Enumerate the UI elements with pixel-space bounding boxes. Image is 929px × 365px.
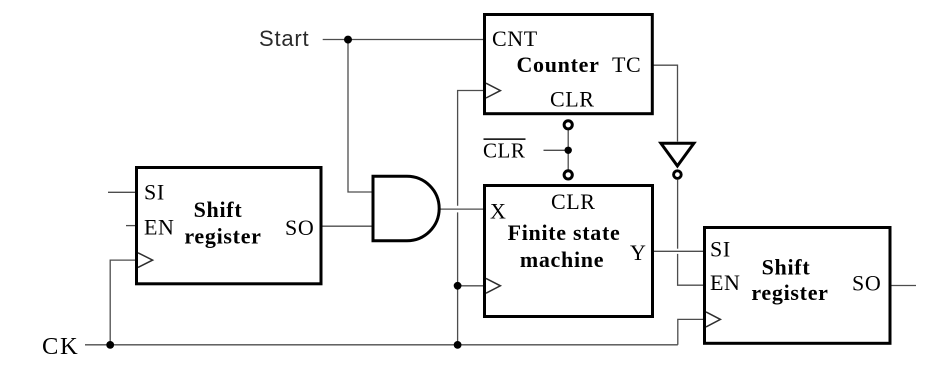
svg-text:EN: EN [144,215,175,240]
svg-text:Shift: Shift [762,255,811,280]
svg-text:register: register [751,280,828,305]
svg-text:register: register [184,224,261,249]
inverter G2 bubble [674,171,682,179]
clock triangle U3 [486,278,500,293]
wire branch to FSM clock [458,285,483,287]
svg-text:CLR: CLR [550,87,595,112]
svg-text:Start: Start [259,26,309,51]
wire SO1 to AND input B [323,225,373,227]
junction dot Start [344,36,352,44]
clock triangle U2 [486,83,500,98]
svg-text:Counter: Counter [516,52,599,77]
wire SI1 input [108,191,135,193]
overline CLRbar [484,138,526,140]
wire CLRbar stub [544,149,569,151]
svg-text:CK: CK [42,333,79,360]
wire CK riser upper segment to counter clock [458,91,483,206]
FSM CLR bubble [564,171,572,179]
svg-text:TC: TC [612,52,641,77]
svg-text:X: X [490,199,507,224]
wire CK main [85,344,678,346]
wire inverter out upper [677,180,679,249]
counter CLR bubble [564,121,572,129]
junction dot FSM clock [454,282,462,290]
svg-text:Shift: Shift [194,197,243,222]
counter U2 box [485,15,653,114]
svg-text:SO: SO [285,215,314,240]
wire SO2 output [891,285,916,287]
FSM U3 box [485,186,653,317]
svg-text:SI: SI [710,237,731,262]
svg-text:machine: machine [520,247,604,272]
wire CK riser to clock SR1 [110,260,135,345]
svg-text:CLR: CLR [483,139,525,163]
wire Start to CNT [323,39,483,41]
svg-text:EN: EN [710,270,741,295]
wire Start drop to AND input A [348,40,372,193]
clock triangle U1 [138,253,153,268]
svg-text:Y: Y [630,240,647,265]
shift register U1 box [137,168,322,284]
clock triangle U4 [706,312,720,327]
wire Y to SI2 [654,250,703,252]
wire CK riser to clock SR2 [678,319,703,344]
svg-text:SI: SI [144,180,165,205]
svg-text:Finite state: Finite state [508,220,621,245]
wire EN1 stub [126,225,135,227]
wire inverter out lower to EN2 [678,254,703,285]
junction dot CK mid [454,341,462,349]
wire AND output to FSM X [441,208,484,210]
svg-text:CNT: CNT [492,26,538,51]
AND gate G1 [373,176,439,240]
wire CK riser lower segment [457,212,459,344]
wire TC to inverter [653,65,678,141]
junction dot CK left [106,341,114,349]
wire CLR vertical between bubbles [567,126,569,173]
svg-text:SO: SO [852,271,881,296]
inverter G2 triangle [661,143,694,166]
svg-text:CLR: CLR [551,189,596,214]
junction dot CLRbar [565,147,572,154]
shift register U4 box [705,228,891,344]
